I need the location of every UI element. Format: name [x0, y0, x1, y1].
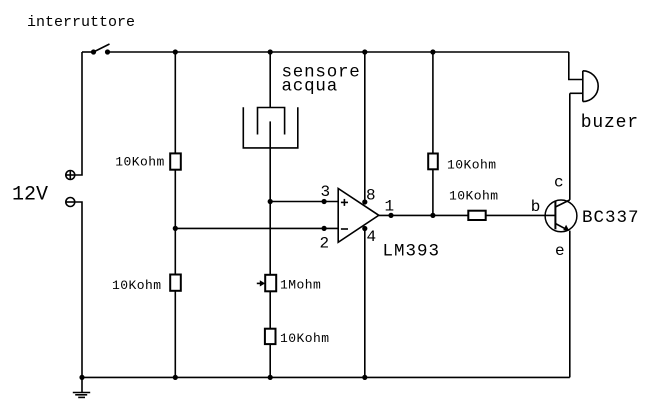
wire sensor branch lower to bottom rail [269, 344, 271, 377]
resistor 10Kohm pull-up body [428, 154, 438, 170]
wire trimmer to lower resistor [269, 291, 271, 328]
junction dot output node [430, 213, 435, 218]
pin 1 dot [388, 213, 393, 218]
junction dot top rail at op-amp supply [362, 49, 367, 54]
wire collector up to buzzer [569, 93, 571, 200]
pin 4 dot [362, 226, 367, 231]
switch S1 left contact dot [91, 49, 96, 54]
svg-text:interruttore: interruttore [27, 14, 135, 31]
svg-text:12V: 12V [12, 184, 48, 207]
op-amp - input mark [341, 228, 348, 230]
wire op-amp pin 4 to bottom rail [364, 229, 366, 378]
ground [73, 393, 90, 398]
wire left branch from rail down to + terminal [75, 52, 82, 175]
wire pull-up branch upper [432, 52, 434, 154]
svg-text:2: 2 [320, 234, 330, 252]
wire sensor branch from sensor to + input node [269, 148, 271, 202]
trimmer 1Mohm wiper arrow [257, 280, 265, 286]
svg-text:1: 1 [385, 198, 395, 216]
pin 3 dot [322, 199, 327, 204]
svg-text:buzer: buzer [581, 113, 639, 133]
wire branch A lower segment [174, 291, 176, 378]
wire base resistor to transistor base [486, 214, 556, 216]
junction dot op-amp ground at bottom rail [362, 375, 367, 380]
switch S1 right contact dot [105, 49, 110, 54]
op-amp + input mark [341, 199, 348, 206]
buzzer [583, 71, 598, 102]
svg-text:10Kohm: 10Kohm [449, 189, 499, 204]
wire bottom rail [82, 376, 570, 378]
wire top rail left segment [82, 51, 94, 53]
junction dot top rail at node A (x=175) [173, 49, 178, 54]
battery - terminal [66, 198, 75, 207]
wire top rail right segment [108, 51, 569, 53]
wire inverting input (-) [175, 227, 338, 229]
svg-text:4: 4 [367, 228, 377, 246]
wire top rail corner down to buzzer + terminal [569, 52, 583, 80]
resistor 10Kohm base body (horizontal) [468, 211, 485, 220]
pin 2 dot [322, 226, 327, 231]
junction dot sensor branch at bottom rail [268, 375, 273, 380]
svg-text:c: c [554, 174, 564, 192]
wire non-inverting input (+) [270, 201, 338, 203]
wire buzzer - terminal [570, 92, 583, 94]
wire op-amp V+ supply (pin 8) [364, 52, 366, 202]
pin 8 dot [362, 199, 367, 204]
svg-text:10Kohm: 10Kohm [115, 155, 165, 170]
junction dot top rail at sensor branch [268, 49, 273, 54]
svg-text:10Kohm: 10Kohm [112, 278, 162, 293]
svg-text:acqua: acqua [282, 76, 339, 96]
svg-text:1Mohm: 1Mohm [280, 277, 321, 292]
svg-text:e: e [555, 242, 565, 260]
junction dot top rail at pull-up branch [430, 49, 435, 54]
wire op-amp output (pin 1) [379, 214, 469, 216]
transistor Q1 BC337 [545, 200, 577, 232]
wire sensor branch to trimmer [269, 202, 271, 275]
resistor 10Kohm upper-left body [170, 153, 181, 169]
svg-text:10Kohm: 10Kohm [280, 331, 330, 346]
junction dot branch A at bottom rail [173, 375, 178, 380]
switch S1 blade [94, 44, 110, 52]
svg-text:3: 3 [321, 183, 331, 201]
svg-text:b: b [531, 198, 541, 216]
battery + terminal [66, 171, 75, 180]
resistor 10Kohm lower-left body [170, 275, 181, 291]
wire branch A middle segment [174, 170, 176, 275]
junction dot node inverting input tee [173, 226, 178, 231]
wire branch A upper segment [174, 52, 176, 153]
svg-text:LM393: LM393 [383, 242, 441, 262]
svg-text:8: 8 [366, 187, 376, 205]
junction dot + input node [268, 199, 273, 204]
wire pull-up branch lower [432, 169, 434, 215]
svg-text:10Kohm: 10Kohm [447, 158, 497, 173]
op-amp U1 LM393 triangle [338, 189, 379, 243]
svg-text:BC337: BC337 [582, 208, 640, 228]
resistor 10Kohm sensor-branch body [265, 329, 276, 344]
trimmer 1Mohm body [265, 275, 276, 292]
sensor electrodes (sensore acqua) [243, 107, 297, 148]
wire emitter down to bottom rail [569, 231, 571, 378]
wire from - terminal down to ground rail [75, 202, 82, 392]
wire sensor branch from rail to sensor [269, 52, 271, 108]
junction dot bottom-left rail [79, 375, 84, 380]
